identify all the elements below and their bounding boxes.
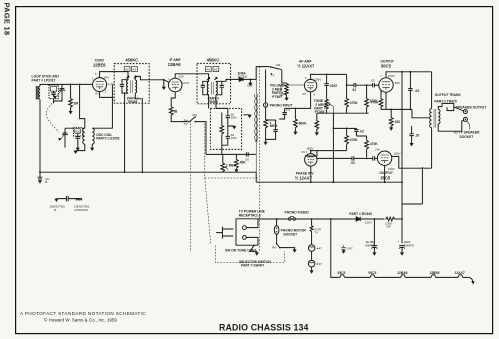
svg-text:12BE6: 12BE6 bbox=[93, 62, 106, 67]
B- arrow 150 bbox=[389, 127, 393, 130]
capacitor 50C5 grid bbox=[373, 83, 379, 87]
resistor 560K divider bbox=[294, 108, 298, 131]
svg-text:12BA6: 12BA6 bbox=[397, 271, 407, 275]
resistor 45K bbox=[235, 154, 239, 169]
svg-text:130V: 130V bbox=[393, 151, 401, 155]
loop stick antenna coil L1 bbox=[36, 86, 40, 100]
wire phase output bbox=[317, 157, 352, 159]
tone control R 2 MEG bbox=[325, 99, 328, 114]
resistor 1 MEG phono bbox=[264, 107, 268, 142]
wire 35C5 screen B+ bbox=[421, 168, 423, 204]
svg-text:10%: 10% bbox=[231, 136, 237, 140]
svg-text:TR469: TR469 bbox=[208, 100, 218, 104]
svg-text:180V: 180V bbox=[306, 147, 314, 151]
svg-text:83V: 83V bbox=[104, 75, 110, 79]
phono motor branch bbox=[276, 219, 278, 225]
svg-text:.02: .02 bbox=[352, 88, 357, 92]
T2 secondary capacitor bbox=[216, 81, 224, 95]
svg-text:PART # TR470: PART # TR470 bbox=[434, 100, 456, 104]
svg-text:.047: .047 bbox=[347, 247, 353, 251]
wire 35C5 cathode to bus bbox=[384, 166, 386, 183]
mechanical link dashed band switch right bbox=[205, 123, 211, 244]
svg-text:1: 1 bbox=[306, 151, 308, 154]
cathode resistor 68 bbox=[169, 106, 189, 122]
svg-text:-1.2V: -1.2V bbox=[107, 82, 115, 86]
wire antenna top to 12BE6 grid bbox=[40, 84, 93, 86]
junction bbox=[310, 150, 312, 152]
tube 12AX7 phase triode V3B bbox=[305, 154, 317, 166]
capacitor .0047 coupling bbox=[324, 74, 328, 98]
svg-text:86V: 86V bbox=[395, 81, 401, 85]
B- takeoff symbol bbox=[38, 172, 43, 183]
filament end arrow bbox=[469, 277, 475, 284]
legend chassis symbol bbox=[76, 199, 82, 201]
svg-text:#47: #47 bbox=[317, 262, 322, 266]
tuning gang capacitor C1A bbox=[54, 84, 65, 103]
junction bbox=[422, 167, 424, 169]
resistor 150 cathode bbox=[389, 109, 393, 127]
T1 adjust tag A3 bbox=[132, 67, 138, 72]
B- arrow 1 MEG bbox=[264, 142, 268, 145]
filament feed wire bbox=[331, 219, 340, 277]
wire 50C5 grid leak bbox=[380, 90, 382, 98]
junction bbox=[390, 109, 392, 111]
wire T2 secondary bottom into band box bbox=[215, 95, 217, 109]
svg-text:TV: TV bbox=[184, 122, 189, 126]
TV sound takeoff dashed box A6 bbox=[210, 108, 241, 149]
svg-text:35C5: 35C5 bbox=[337, 271, 345, 275]
svg-text:12BE6: 12BE6 bbox=[429, 271, 439, 275]
wire trimmer to top wire bbox=[53, 84, 55, 101]
svg-text:PAGE 18: PAGE 18 bbox=[3, 3, 12, 36]
dial lamp I1 bbox=[308, 245, 315, 252]
filament heater 12AX7 bbox=[458, 275, 469, 278]
phase block wires bbox=[305, 136, 367, 156]
svg-text:10%: 10% bbox=[231, 115, 237, 119]
phono jack J1 bbox=[264, 69, 268, 107]
B- arrow osc right bbox=[90, 148, 94, 151]
svg-text:A2: A2 bbox=[125, 68, 129, 72]
T1 slug arrows bbox=[126, 76, 129, 79]
svg-text:CHASSIS: CHASSIS bbox=[74, 208, 88, 212]
svg-text:SOCKET: SOCKET bbox=[283, 232, 297, 236]
svg-text:A3: A3 bbox=[132, 68, 136, 72]
svg-text:-.02V: -.02V bbox=[245, 83, 253, 87]
wiper arrow 1 MEG lower bbox=[225, 167, 228, 170]
B- arrow osc left bbox=[74, 151, 78, 154]
junction bbox=[346, 84, 348, 86]
electrolytic C1A 40MFD bbox=[371, 219, 377, 252]
svg-text:50MFD: 50MFD bbox=[404, 243, 415, 247]
svg-text:107V: 107V bbox=[182, 81, 190, 85]
resistor 470K phase grid bbox=[345, 128, 349, 150]
oscillator coil L2 bbox=[83, 122, 94, 145]
legend line bbox=[56, 198, 79, 200]
svg-text:456KC: 456KC bbox=[207, 58, 220, 63]
T1 secondary coil bbox=[135, 79, 136, 93]
mechanical link dashed vertical bbox=[258, 67, 260, 252]
gang arrow 2 bbox=[59, 134, 65, 140]
filter resistor 1000 2W bbox=[385, 217, 402, 221]
wire cap lower leads bbox=[411, 126, 413, 143]
svg-text:40MFD: 40MFD bbox=[365, 243, 376, 247]
fuse phono bbox=[288, 216, 295, 220]
IF transformer T2 dashed box bbox=[197, 63, 231, 103]
dial lamp dropping resistor bbox=[310, 225, 313, 244]
svg-text:50C5: 50C5 bbox=[368, 271, 376, 275]
T2 slug arrows bbox=[207, 77, 210, 80]
wire 50C5 cathode node bbox=[381, 92, 412, 109]
B- arrow C1A bbox=[372, 252, 376, 255]
svg-text:6: 6 bbox=[95, 73, 97, 76]
capacitor .02 plate bypass bbox=[408, 72, 412, 110]
wire 12BE6 osc grid down bbox=[80, 84, 85, 121]
T2 adjust tag A4 bbox=[205, 67, 211, 72]
junction bbox=[295, 108, 297, 110]
wire phase cathode to bus bbox=[310, 166, 312, 182]
AVC arrow and level bbox=[249, 79, 251, 82]
svg-text:68: 68 bbox=[174, 109, 178, 113]
svg-text:RADIO CHASSIS 134: RADIO CHASSIS 134 bbox=[219, 323, 309, 333]
band switch AM/TV S1B bbox=[189, 116, 206, 154]
T2 primary capacitor bbox=[201, 81, 209, 95]
svg-text:.02: .02 bbox=[359, 129, 364, 133]
grid return arrow bbox=[163, 80, 165, 87]
svg-text:50C5: 50C5 bbox=[381, 63, 392, 68]
svg-text:100V: 100V bbox=[314, 78, 322, 82]
svg-text:1 MEG: 1 MEG bbox=[226, 164, 237, 168]
svg-text:½ 12AX7: ½ 12AX7 bbox=[295, 175, 313, 180]
svg-text:B-: B- bbox=[54, 208, 57, 212]
wire 12BE6 plate to T1 bbox=[100, 72, 128, 80]
svg-text:TR468: TR468 bbox=[127, 100, 137, 104]
phono switch PH bbox=[276, 234, 295, 249]
junction bbox=[276, 218, 278, 220]
capacitor 56 lower bbox=[226, 131, 230, 145]
svg-text:470K: 470K bbox=[350, 101, 359, 105]
svg-text:DENOTES: DENOTES bbox=[50, 205, 65, 209]
T1 padding capacitor bbox=[120, 80, 128, 94]
svg-text:© Howard W. Sams & Co., Inc. 1: © Howard W. Sams & Co., Inc. 1959 bbox=[44, 317, 117, 323]
svg-text:470K: 470K bbox=[371, 100, 380, 104]
svg-text:A PHOTOFACT STANDARD NOTATI: A PHOTOFACT STANDARD NOTATION SCHEMATIC bbox=[20, 311, 146, 316]
svg-text:SPEAKER OUTPUT: SPEAKER OUTPUT bbox=[456, 106, 486, 110]
junction bbox=[326, 74, 328, 76]
wire 12BA6 plate to T2 bbox=[175, 74, 208, 82]
wire phase plate bbox=[310, 151, 312, 154]
wire osc coil left bottom to ground bbox=[76, 144, 85, 150]
resistor 470K phase load bbox=[365, 136, 369, 157]
svg-text:PT367: PT367 bbox=[272, 95, 282, 99]
junction dot antenna wire bbox=[70, 84, 72, 86]
svg-text:100V: 100V bbox=[388, 74, 396, 78]
IF transformer T1 dashed box bbox=[114, 64, 149, 104]
B- arrow volume bottom bbox=[285, 98, 289, 101]
resistor 2M bbox=[69, 84, 73, 111]
tube 12AX7 AF triode V3A bbox=[304, 79, 316, 91]
svg-text:470K: 470K bbox=[370, 142, 379, 146]
junction bbox=[311, 218, 313, 220]
wires to speaker jack bbox=[438, 107, 464, 131]
T1 core bbox=[131, 80, 133, 93]
B- arrow 560K bbox=[293, 132, 297, 135]
svg-text:PH: PH bbox=[272, 246, 276, 250]
svg-text:PHONO FUSED: PHONO FUSED bbox=[285, 210, 310, 214]
padder capacitor box A10 bbox=[73, 128, 82, 148]
line plug prongs bbox=[216, 227, 233, 239]
power line wire top bbox=[258, 218, 352, 220]
B- arrow padder bbox=[76, 148, 80, 151]
svg-text:2: 2 bbox=[105, 91, 107, 94]
wire secondary top to plug loop bbox=[438, 103, 454, 110]
svg-text:1: 1 bbox=[380, 93, 382, 96]
svg-text:DIODE: DIODE bbox=[238, 75, 248, 79]
svg-text:MEG: MEG bbox=[270, 124, 278, 128]
svg-text:456KC: 456KC bbox=[125, 58, 138, 63]
bus junction dots bbox=[124, 171, 126, 173]
wire 50C5 plate rail bbox=[386, 72, 432, 78]
resistor 470K 50C5 grid bbox=[379, 98, 383, 109]
svg-text:12BA6: 12BA6 bbox=[168, 62, 181, 67]
svg-text:7: 7 bbox=[380, 75, 382, 78]
svg-text:2V: 2V bbox=[302, 92, 307, 96]
capacitor 35C5 grid bbox=[367, 156, 378, 160]
phase inverter block wire bbox=[333, 113, 356, 182]
shielded phono cable bbox=[254, 94, 255, 142]
filament heater 35C5 bbox=[340, 275, 370, 278]
junction bbox=[250, 79, 252, 81]
phono motor socket bbox=[274, 226, 279, 235]
wire AF plate rail bbox=[311, 74, 347, 79]
svg-text:PART# LO2052: PART# LO2052 bbox=[96, 137, 120, 141]
speaker output jack bbox=[463, 110, 467, 122]
wire cathode node to trans bbox=[412, 109, 430, 117]
svg-text:35C5: 35C5 bbox=[380, 175, 391, 180]
mechanical link dashed band switch left bbox=[190, 123, 192, 252]
B- arrow 560K leg bbox=[315, 132, 319, 135]
svg-text:PART # SW407: PART # SW407 bbox=[241, 263, 264, 267]
filament heater 50C5 bbox=[370, 275, 400, 278]
tube 35C5 V5 bbox=[377, 151, 391, 165]
junction bbox=[410, 109, 412, 111]
svg-text:8: 8 bbox=[314, 93, 316, 96]
svg-text:.02: .02 bbox=[350, 161, 355, 165]
junction bbox=[39, 171, 41, 173]
B- arrow lamps bbox=[310, 270, 314, 273]
capacitor phono .005 bbox=[266, 120, 278, 139]
resistor 470K plate load bbox=[345, 74, 349, 113]
filament heater 12BA6 bbox=[401, 275, 431, 278]
B- arrow C1B bbox=[400, 252, 404, 255]
capacitor .02 phase coupling bbox=[354, 128, 358, 136]
wire diode load to switch bbox=[256, 67, 269, 80]
wire T2 secondary top to diode bbox=[222, 79, 239, 81]
tone wiper bbox=[328, 103, 333, 113]
svg-text:AM: AM bbox=[192, 113, 197, 117]
rectifier M2 selenium bbox=[352, 217, 384, 221]
wire 35C5 plate to transformer bbox=[392, 156, 432, 168]
capacitor .02 lower bbox=[409, 132, 413, 138]
B- bus jog bbox=[255, 172, 257, 182]
output transformer T3 bbox=[430, 72, 440, 168]
tube 12BE6 V1 bbox=[93, 78, 107, 92]
legend capacitor plates bbox=[66, 196, 68, 201]
B- arrow power switch bbox=[255, 252, 259, 255]
svg-text:6: 6 bbox=[305, 77, 307, 80]
T2 primary coil bbox=[207, 81, 208, 95]
TV power line receptacle bbox=[236, 219, 258, 245]
trimmer capacitor box A1 bbox=[49, 85, 58, 99]
svg-text:RECEPTACLE: RECEPTACLE bbox=[239, 213, 262, 217]
B+ riser bbox=[402, 72, 422, 204]
capacitor .02 output to 35C5 bbox=[352, 156, 367, 160]
T2 secondary coil bbox=[216, 81, 217, 95]
svg-text:.0047: .0047 bbox=[329, 84, 337, 88]
wire T1 primary bottom down to bus bbox=[124, 93, 126, 172]
wire AF cathode divider bbox=[295, 92, 310, 109]
B- arrow phono switch bbox=[293, 249, 297, 252]
resistor band box bbox=[220, 112, 224, 145]
svg-text:470K: 470K bbox=[350, 138, 359, 142]
junction bbox=[374, 218, 376, 220]
svg-text:2W: 2W bbox=[386, 224, 391, 228]
capacitor 56 upper bbox=[226, 108, 230, 124]
svg-text:.02: .02 bbox=[415, 134, 420, 138]
mechanical link dashed horizontal bbox=[205, 177, 259, 179]
B- bus right bbox=[256, 181, 402, 183]
T1 primary coil bbox=[127, 79, 128, 93]
wire antenna bottom down to B- bus bbox=[39, 99, 41, 172]
T2 adjust tag A5 bbox=[213, 67, 219, 72]
junction bbox=[410, 71, 412, 73]
capacitor .05 takeoff bbox=[206, 152, 248, 156]
wire osc coil right bottom bbox=[91, 144, 93, 147]
resistor 560K cathode leg bbox=[315, 113, 319, 132]
T1 adjust tag A2 bbox=[124, 67, 130, 72]
svg-text:1: 1 bbox=[92, 77, 94, 80]
svg-text:B-: B- bbox=[45, 180, 48, 184]
svg-text:2M: 2M bbox=[74, 102, 79, 106]
svg-text:PT368: PT368 bbox=[315, 110, 325, 114]
svg-text:OUTPUT TRANS: OUTPUT TRANS bbox=[435, 93, 462, 97]
electrolytic C1B 50MFD bbox=[399, 219, 405, 252]
wire B+ riser bus junction bbox=[401, 181, 403, 183]
junction bbox=[79, 84, 81, 86]
svg-text:+: + bbox=[371, 239, 373, 243]
svg-text:#47: #47 bbox=[317, 246, 322, 250]
B- bus left bbox=[40, 171, 256, 173]
svg-text:SW ON TONE CONT.: SW ON TONE CONT. bbox=[225, 249, 257, 253]
B- arrow cap lower bbox=[410, 143, 414, 146]
svg-text:150: 150 bbox=[395, 120, 401, 124]
B- arrow below 2M bbox=[69, 111, 73, 114]
diode M1 1N64 bbox=[239, 77, 256, 81]
filament heater 12BE6 bbox=[431, 275, 458, 278]
resistor 1 MEG lower bbox=[221, 154, 225, 172]
switch S1A AM contact bbox=[270, 66, 287, 83]
svg-text:120V: 120V bbox=[388, 167, 396, 171]
svg-text:AM: AM bbox=[276, 63, 281, 67]
power switch on tone control S2 bbox=[249, 245, 257, 253]
svg-text:7: 7 bbox=[379, 149, 381, 152]
svg-text:0V: 0V bbox=[95, 92, 100, 96]
wire 12BA6 cathode bbox=[171, 92, 175, 106]
junction bbox=[163, 79, 165, 81]
svg-text:A10: A10 bbox=[75, 129, 81, 133]
volume wiper bbox=[281, 85, 305, 96]
svg-text:A5: A5 bbox=[214, 68, 218, 72]
svg-text:A4: A4 bbox=[206, 68, 210, 72]
svg-text:12AX7: 12AX7 bbox=[455, 271, 465, 275]
svg-text:TV: TV bbox=[271, 74, 276, 78]
wire 12BE6 cathode down bbox=[92, 85, 112, 129]
svg-text:½ 12AX7: ½ 12AX7 bbox=[297, 64, 315, 69]
junction bbox=[124, 92, 126, 94]
resistor 470K grid 50C5 bbox=[365, 85, 369, 113]
wire T1 secondary top to 12BA6 grid bbox=[135, 76, 168, 82]
line capacitor .047 bbox=[341, 245, 345, 254]
B- arrow 45K bbox=[234, 169, 238, 172]
junction bbox=[401, 218, 403, 220]
dashed gang link line bbox=[46, 101, 59, 132]
dial lamp I2 bbox=[308, 251, 315, 270]
svg-text:SOCKET: SOCKET bbox=[460, 135, 474, 139]
svg-text:.02: .02 bbox=[371, 79, 376, 83]
tube 50C5 V4 bbox=[379, 78, 393, 92]
svg-text:PART # RC640: PART # RC640 bbox=[349, 212, 372, 216]
osc tuning gang capacitor C1B bbox=[62, 128, 85, 147]
svg-text:82V: 82V bbox=[179, 75, 185, 79]
junction line y113 bbox=[317, 112, 369, 114]
B- arrow box mid bbox=[232, 126, 236, 129]
selector switch dashed box bbox=[215, 246, 284, 263]
box internal wires bbox=[216, 108, 250, 145]
junction bbox=[401, 71, 403, 73]
dial lamp branch bbox=[311, 219, 313, 225]
wire B+ node up bbox=[401, 204, 403, 219]
junction bbox=[112, 97, 114, 99]
wire band box bottom bbox=[222, 145, 256, 154]
legend B- arrow bbox=[54, 199, 58, 202]
svg-text:.02: .02 bbox=[415, 89, 420, 93]
junction bbox=[330, 218, 332, 220]
svg-text:560K: 560K bbox=[299, 121, 308, 125]
capacitor .02 coupling to output bbox=[347, 83, 373, 87]
speaker cable curve bbox=[467, 121, 470, 129]
svg-text:7: 7 bbox=[180, 90, 182, 93]
svg-text:+: + bbox=[397, 239, 399, 243]
receptacle contacts bbox=[243, 219, 259, 245]
svg-text:PART # LP2012: PART # LP2012 bbox=[32, 78, 56, 82]
phono cable core wire bbox=[255, 67, 257, 173]
T2 core bbox=[211, 82, 213, 95]
capacitor 2.2 bbox=[279, 108, 295, 119]
wire T1 secondary bottom down to bus bbox=[135, 94, 142, 173]
tube 12BA6 V2 bbox=[168, 78, 182, 92]
junction bbox=[346, 127, 348, 129]
junction bbox=[366, 158, 368, 160]
svg-text:2.2: 2.2 bbox=[286, 108, 291, 112]
volume control R V 2 MEG bbox=[285, 83, 288, 98]
wire T2 primary bottom bbox=[208, 95, 210, 109]
gang arrow bbox=[55, 90, 62, 99]
junction bbox=[366, 84, 368, 86]
svg-text:130V: 130V bbox=[365, 221, 373, 225]
svg-text:45K: 45K bbox=[240, 161, 247, 165]
